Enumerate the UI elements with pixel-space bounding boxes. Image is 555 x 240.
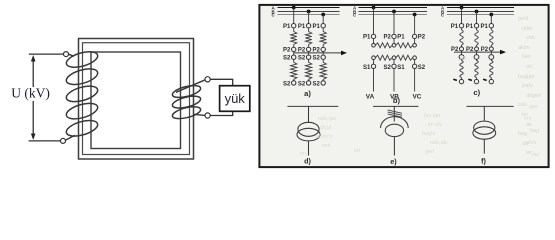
svg-text:P2: P2	[418, 35, 426, 41]
primary winding a3 (zigzag)	[322, 28, 324, 32]
svg-text:akm: akm	[526, 140, 537, 146]
junction circle row2 (b3)	[413, 56, 417, 60]
wire: bus to P1 terminal (c1)	[461, 8, 463, 24]
terminal P1 (c2)	[474, 24, 478, 28]
arrow tap line group a	[294, 52, 343, 54]
transformer symbol d (two windings)	[298, 122, 319, 136]
junction dot group c branch 2 on bus B	[475, 10, 479, 14]
wire: drop to symbol e	[393, 106, 395, 121]
terminal P1 (c1)	[459, 24, 463, 28]
wire: bus to primary terminal (b3)	[414, 15, 416, 35]
svg-text:f): f)	[481, 157, 486, 166]
svg-text:trafo: trafo	[522, 83, 533, 89]
junction dot group a branch 2 on bus B	[307, 10, 311, 14]
wire: bus to P1 terminal (a3)	[322, 15, 324, 24]
link to winding row (b1)	[373, 39, 375, 44]
wire: terminal to load box bottom	[210, 112, 233, 116]
wire: bus to primary terminal (b2)	[393, 12, 395, 35]
terminal S2 upper (a3)	[321, 55, 325, 59]
terminal P2 (c2)	[475, 47, 479, 51]
secondary terminal (b1)	[371, 64, 375, 68]
svg-text:P1: P1	[363, 35, 371, 41]
svg-text:ger: ger	[530, 104, 538, 110]
junction dot group c branch 1 on bus A	[460, 6, 464, 10]
link down through tap (c1)	[461, 51, 463, 55]
svg-text:nda ger: nda ger	[318, 116, 337, 122]
svg-text:geri: geri	[425, 149, 434, 155]
terminal S2 lower (a3)	[321, 81, 325, 85]
svg-text:a): a)	[304, 89, 311, 98]
svg-text:im: im	[300, 151, 306, 157]
terminal P2 (a1)	[292, 47, 296, 51]
wire: header line f	[466, 105, 513, 107]
terminal P2 (a3)	[321, 47, 325, 51]
transformer core middle rectangle	[83, 43, 190, 155]
secondary top terminal	[205, 77, 210, 82]
svg-text:akim: akim	[518, 45, 530, 51]
wire: bus to P1 terminal (c2)	[476, 12, 478, 24]
terminal P1 (c3)	[489, 24, 493, 28]
link down through tap (c2)	[476, 51, 478, 55]
svg-text:Ger: Ger	[522, 54, 531, 60]
terminal P1 (a2)	[306, 24, 310, 28]
secondary winding b W1 (horizontal zigzag)	[375, 55, 392, 60]
svg-text:S1: S1	[363, 65, 371, 71]
junction circle row1 (b3)	[413, 44, 417, 48]
junction dot group a branch 1 on bus A	[292, 6, 296, 10]
three-conductor hatch marks	[388, 110, 402, 113]
wire: bus to P1 terminal (a2)	[308, 12, 310, 24]
terminal S2 lower (a1)	[292, 81, 296, 85]
secondary winding a3 (zigzag)	[322, 59, 324, 62]
svg-text:san: san	[518, 102, 527, 108]
primary top terminal	[64, 52, 69, 57]
primary winding coil L1 (left leg, 5 turns)	[65, 49, 100, 139]
wire: symbol d bottom lead	[308, 141, 310, 156]
primary winding c1 (wave coil)	[461, 28, 463, 30]
secondary terminal (b2)	[392, 64, 396, 68]
svg-text:der: der	[532, 152, 540, 158]
svg-text:bag: bag	[530, 128, 539, 134]
primary winding a2 (zigzag)	[308, 28, 310, 32]
link to secondary terminal (b1)	[373, 60, 375, 65]
wire: coil to bottom-right terminal	[194, 114, 206, 115]
transformer core inner window rectangle	[91, 52, 181, 149]
svg-text:S2: S2	[283, 56, 291, 62]
terminal S2 upper (a1)	[292, 55, 296, 59]
secondary bottom terminal	[205, 113, 210, 118]
svg-text:S2: S2	[283, 81, 291, 87]
terminal S2 upper (a2)	[306, 55, 310, 59]
svg-text:nda alc: nda alc	[430, 140, 448, 146]
terminal P1 (a3)	[321, 24, 325, 28]
svg-text:bag: bag	[518, 131, 527, 137]
svg-text:olcul: olcul	[320, 125, 331, 131]
svg-text:c): c)	[473, 88, 480, 97]
link to winding row (b2)	[393, 39, 395, 44]
secondary winding c1 (wave coil)	[461, 59, 463, 60]
bottom terminal (c1)	[459, 79, 463, 83]
svg-text:VC: VC	[413, 94, 422, 101]
junction dot group c branch 3 on bus C	[489, 13, 493, 17]
link P2 to S2 (a1)	[293, 52, 295, 55]
svg-text:faz ger: faz ger	[424, 113, 441, 119]
svg-text:S2: S2	[312, 81, 320, 87]
svg-text:e): e)	[390, 157, 397, 166]
svg-text:baglan: baglan	[518, 74, 535, 80]
terminal P2 (c1)	[460, 47, 464, 51]
primary terminal (b3)	[412, 34, 416, 38]
svg-text:d): d)	[304, 157, 311, 166]
wire: secondary terminal down (b2)	[393, 69, 395, 92]
terminal P2 (c3)	[489, 47, 493, 51]
link to secondary terminal (b3)	[414, 60, 416, 65]
primary winding c2 (wave coil)	[476, 28, 478, 30]
secondary winding c3 (wave coil)	[490, 59, 492, 60]
svg-text:yük: yük	[225, 91, 246, 106]
svg-text:P1: P1	[283, 24, 291, 30]
bottom terminal (c3)	[489, 79, 493, 83]
junction circle row1 (b2)	[392, 44, 396, 48]
svg-text:P1: P1	[312, 24, 320, 30]
polarity dot (c1)	[453, 79, 457, 80]
wire: drop to symbol f	[483, 106, 485, 121]
scanned figure panel	[259, 5, 548, 167]
wire: terminal to load box top	[210, 79, 233, 85]
secondary terminal (b3)	[412, 64, 416, 68]
secondary winding a2 (zigzag)	[308, 59, 310, 62]
wire: bus to primary terminal (b1)	[373, 8, 375, 35]
svg-text:sek.: sek.	[526, 35, 537, 41]
link P2 to S2 (a2)	[308, 52, 310, 55]
wire: symbol e bottom lead	[393, 137, 395, 156]
junction circle (c1)	[459, 55, 464, 60]
junction dot group a branch 3 on bus C	[321, 13, 325, 17]
svg-text:bagla: bagla	[422, 131, 436, 137]
svg-text:S2: S2	[418, 65, 426, 71]
wire: symbol f bottom lead	[483, 139, 485, 153]
junction dot group b branch 3 on bus C	[413, 13, 417, 17]
wire: bottom terminal to coil	[65, 135, 75, 140]
transformer symbol e (arc + winding)	[381, 117, 409, 128]
svg-text:S1: S1	[397, 65, 405, 71]
primary winding b W1 (horizontal zigzag)	[375, 43, 392, 48]
link to secondary terminal (b2)	[393, 60, 395, 65]
secondary winding c2 (wave coil)	[476, 59, 478, 60]
svg-text:P2: P2	[383, 35, 391, 41]
svg-text:P1: P1	[481, 24, 489, 30]
svg-text:im olc: im olc	[428, 122, 443, 128]
secondary winding coil L2 (right leg, 3 turns)	[171, 83, 202, 121]
wire: secondary terminal down (b1)	[373, 69, 375, 92]
wire: header line e	[373, 105, 418, 107]
wire: source bottom lead	[29, 140, 61, 142]
primary bottom terminal	[61, 138, 66, 143]
junction dot group b branch 1 on bus A	[372, 6, 376, 10]
polarity dot (c2)	[468, 79, 472, 80]
bottom terminal (c2)	[474, 79, 478, 83]
arrow tap line group c	[454, 51, 502, 53]
terminal P1 (a1)	[292, 24, 296, 28]
junction circle row2 (b2)	[392, 56, 396, 60]
svg-text:S2: S2	[383, 65, 391, 71]
junction circle (c2)	[474, 55, 479, 60]
svg-text:S2: S2	[312, 56, 320, 62]
junction circle (c3)	[489, 55, 494, 60]
wire: bus to P1 terminal (a1)	[293, 8, 295, 24]
junction dot group b branch 2 on bus B	[392, 10, 396, 14]
secondary winding b W2 (horizontal zigzag)	[396, 55, 413, 60]
wire: bus to P1 terminal (c3)	[490, 15, 492, 24]
svg-text:P1: P1	[466, 24, 474, 30]
wire: secondary terminal down (b3)	[414, 69, 416, 92]
polarity dot (c3)	[483, 79, 487, 80]
svg-text:degeri: degeri	[526, 93, 541, 99]
svg-text:P1: P1	[397, 35, 405, 41]
svg-text:akim tr: akim tr	[316, 134, 333, 140]
svg-text:S2: S2	[298, 56, 306, 62]
wire: header line d	[287, 105, 338, 107]
wire: top terminal to coil	[68, 54, 74, 56]
junction circle row1 (b1)	[372, 44, 376, 48]
primary winding b W2 (horizontal zigzag)	[396, 43, 413, 48]
svg-text:b): b)	[393, 96, 401, 105]
svg-text:olc: olc	[526, 64, 533, 70]
primary winding a1 (zigzag)	[293, 28, 295, 32]
scan bleed-through ghost text (decorative-free zone label skipped)	[518, 16, 541, 156]
svg-text:S2: S2	[298, 81, 306, 87]
transformer symbol f (two windings)	[474, 121, 495, 134]
transformer core outer rectangle	[79, 39, 194, 160]
primary winding c3 (wave coil)	[490, 28, 492, 30]
link P2 to S2 (a3)	[322, 52, 324, 55]
link down through tap (c3)	[490, 51, 492, 55]
primary terminal (b1)	[371, 34, 375, 38]
wire: source top lead	[29, 53, 64, 55]
svg-text:P2: P2	[283, 48, 291, 54]
svg-text:VA: VA	[366, 94, 375, 101]
svg-text:ter: ter	[354, 148, 361, 154]
svg-text:P1: P1	[298, 24, 306, 30]
svg-text:iml: iml	[524, 116, 531, 122]
primary terminal (b2)	[392, 34, 396, 38]
svg-text:sek: sek	[322, 143, 331, 149]
svg-text:olc: olc	[460, 56, 467, 62]
terminal P2 (a2)	[306, 47, 310, 51]
load box yuk	[220, 86, 250, 112]
wire: coil to top-right terminal	[176, 80, 205, 93]
junction circle row2 (b1)	[372, 56, 376, 60]
wire: drop to symbol d	[308, 106, 310, 123]
terminal S2 lower (a2)	[306, 81, 310, 85]
svg-text:P1: P1	[451, 24, 459, 30]
U measurement line with arrowheads	[32, 60, 34, 88]
svg-text:U (kV): U (kV)	[11, 85, 50, 100]
link to winding row (b3)	[414, 39, 416, 44]
svg-text:geril: geril	[518, 16, 528, 22]
secondary winding a1 (zigzag)	[293, 59, 295, 62]
svg-text:mler: mler	[522, 26, 533, 32]
